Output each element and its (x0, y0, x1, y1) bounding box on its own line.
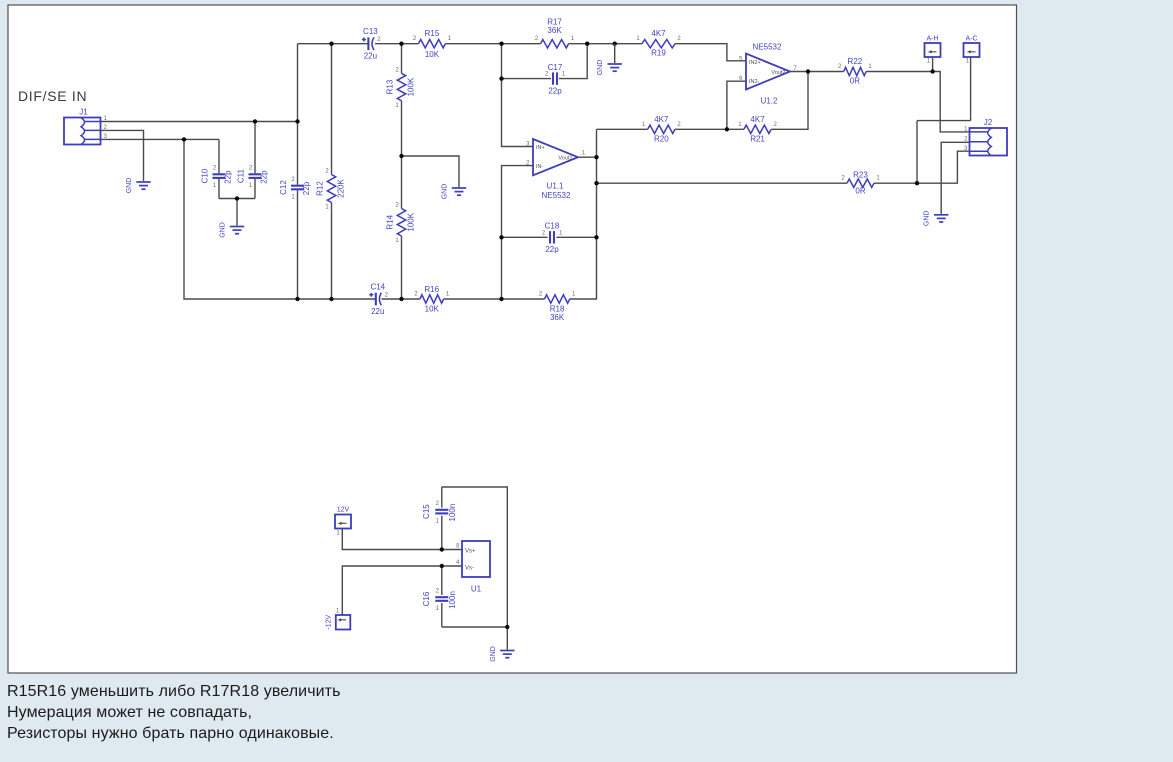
wire R19 to U1.2 IN2+ (675, 44, 746, 61)
svg-text:22p: 22p (548, 87, 562, 96)
label DIF/SE IN (18, 88, 87, 104)
wire C12 top lead (297, 44, 299, 185)
svg-text:0R: 0R (850, 77, 860, 86)
svg-text:100K: 100K (407, 77, 416, 96)
svg-text:22p: 22p (545, 245, 559, 254)
svg-text:IN-: IN- (536, 164, 544, 170)
svg-text:U1.1: U1.1 (547, 182, 564, 191)
node R23 out (915, 181, 919, 185)
wire to R20 (597, 128, 648, 130)
wire R13 top lead (401, 44, 403, 74)
node C16/Vs- (440, 564, 444, 568)
svg-text:GND: GND (490, 646, 497, 662)
wire C16 bottom lead (441, 603, 443, 627)
svg-text:R15: R15 (425, 29, 440, 38)
capacitor C16 100n (422, 589, 457, 613)
svg-text:R16: R16 (424, 285, 439, 294)
svg-text:36K: 36K (547, 26, 562, 35)
node R13/R14 mid (399, 154, 403, 158)
node C17 right (585, 42, 589, 46)
svg-text:4K7: 4K7 (654, 115, 669, 124)
capacitor C13 22u (polarized) (362, 27, 381, 61)
svg-text:R17: R17 (547, 18, 562, 27)
svg-text:22u: 22u (364, 52, 377, 61)
wire C17 right (559, 44, 587, 79)
wire -12V to U1 Vs- (342, 566, 462, 615)
svg-text:-12V: -12V (326, 614, 333, 629)
capacitor C12 22p (279, 177, 311, 201)
capacitor C18 22p (542, 222, 563, 255)
wire A-C to R23 node (916, 121, 918, 184)
svg-text:0R: 0R (855, 187, 865, 196)
node pin1/C12 (295, 119, 299, 123)
svg-text:A-C: A-C (965, 36, 977, 43)
svg-text:C13: C13 (363, 27, 378, 36)
wire C17 left (502, 78, 552, 80)
svg-text:C14: C14 (370, 282, 385, 291)
svg-text:22p: 22p (302, 181, 311, 195)
svg-text:GND: GND (924, 211, 931, 227)
svg-text:22u: 22u (371, 307, 384, 316)
svg-text:Vs-: Vs- (465, 565, 474, 571)
connector J2 (output) (964, 118, 1007, 156)
svg-text:22p: 22p (260, 170, 269, 184)
resistor R21 4K7 (738, 115, 777, 144)
svg-text:U1: U1 (471, 585, 482, 594)
op-amp U1.1 NE5532 (526, 139, 586, 200)
wire J1 pin2 to GND (101, 130, 144, 181)
svg-text:J1: J1 (79, 108, 88, 117)
capacitor C10 22p (201, 166, 233, 190)
wire A-C pin (970, 57, 972, 121)
wire R12 bottom lead (331, 203, 333, 300)
svg-text:NE5532: NE5532 (542, 191, 571, 200)
resistor R16 10K (414, 285, 450, 314)
svg-text:C16: C16 (422, 591, 431, 606)
resistor R19 4K7 (636, 29, 681, 57)
schematic panel (8, 5, 1017, 673)
resistor R23 0R (841, 171, 880, 196)
wire C18 left (502, 236, 548, 238)
node -12V supply pin (326, 609, 351, 630)
svg-text:DIF/SE IN: DIF/SE IN (18, 88, 87, 104)
wire output vertical (596, 129, 598, 299)
svg-text:R23: R23 (853, 171, 868, 180)
node U1.2 out (806, 69, 810, 73)
resistor R17 36K (535, 18, 575, 48)
wire GND tap (402, 156, 460, 187)
svg-text:IN+: IN+ (536, 145, 545, 151)
svg-text:4K7: 4K7 (651, 29, 666, 38)
svg-text:IN2-: IN2- (749, 79, 760, 85)
wire to GND below C10/C11 (236, 199, 238, 226)
resistor R22 0R (838, 57, 872, 86)
resistor R20 4K7 (642, 115, 681, 144)
ground (R13/R14 mid) (442, 184, 467, 200)
node R20/R21 (725, 127, 729, 131)
wire C16 top lead (441, 566, 443, 595)
svg-text:C17: C17 (548, 63, 563, 72)
wire to U1.1 IN+ (502, 79, 534, 147)
wire bottom rail left (184, 139, 375, 299)
svg-text:100K: 100K (407, 212, 416, 231)
wire U1.1 IN- to C18 (502, 166, 534, 299)
node A-H (audio hot pin) (925, 36, 941, 65)
svg-text:22p: 22p (224, 170, 233, 184)
node pin3 branch (182, 137, 186, 141)
wire C15 bottom lead (441, 516, 443, 550)
wire +12V to U1 Vs+ (342, 529, 462, 550)
wire A-C link (917, 120, 971, 122)
wire U1.1 output (578, 156, 597, 158)
svg-text:R22: R22 (848, 57, 863, 66)
ground (top rail) (597, 60, 622, 76)
node A-C (audio cold pin) (964, 36, 980, 65)
node IN- rail (499, 297, 503, 301)
svg-text:12V: 12V (337, 507, 350, 514)
wire C10 top lead (218, 139, 220, 173)
node R23 tap (594, 181, 598, 185)
svg-text:Vs+: Vs+ (465, 549, 476, 555)
svg-text:C18: C18 (545, 222, 560, 231)
node C17 left (499, 76, 503, 80)
node C10/C11 gnd (235, 196, 239, 200)
wire U1.2 IN2- stub (727, 81, 746, 129)
resistor R15 10K (413, 29, 452, 59)
ground (C10/C11) (220, 222, 245, 238)
node +12V supply pin (335, 507, 351, 537)
wire R21 to U1.2 out (771, 72, 808, 130)
svg-text:R21: R21 (750, 135, 765, 144)
wire J2 pin2 to GND (941, 142, 969, 214)
svg-text:4K7: 4K7 (750, 115, 765, 124)
wire J1 pin1 (101, 121, 298, 123)
node U1.1 out (594, 155, 598, 159)
wire C10 bottom lead (218, 179, 220, 199)
wire node A vertical (501, 44, 503, 79)
wire C12 bottom lead (297, 190, 299, 299)
ground (J2 pin2) (924, 211, 949, 227)
wire R14 bottom lead (401, 236, 403, 299)
node C18 right (594, 235, 598, 239)
resistor R14 100K (386, 203, 416, 245)
node IN+ net (499, 42, 503, 46)
svg-text:GND: GND (442, 184, 449, 200)
wire C11 bottom lead (254, 179, 256, 199)
capacitor C11 22p (237, 166, 269, 190)
svg-text:NE5532: NE5532 (753, 43, 782, 52)
svg-text:A-H: A-H (926, 36, 938, 43)
wire R16 to R18 (444, 298, 545, 300)
node GND tap top (613, 42, 617, 46)
svg-text:GND: GND (126, 178, 133, 194)
wire J1 pin3 (101, 138, 220, 140)
connector J1 (DIF/SE input) (64, 108, 108, 145)
wire C13 to R13 node (375, 43, 419, 45)
wire R23 to J2 pin3 (874, 151, 970, 183)
capacitor C15 100n (422, 501, 457, 524)
wire C11 top lead (254, 122, 256, 174)
svg-text:C10: C10 (201, 168, 210, 183)
wire R22 to A-H (866, 72, 969, 132)
wire to power GND (506, 627, 508, 650)
svg-text:C12: C12 (279, 180, 288, 195)
node C18 left (499, 235, 503, 239)
capacitor C14 22u (polarized) (369, 282, 388, 316)
svg-text:IN2+: IN2+ (749, 60, 761, 66)
wire power loop (442, 487, 508, 627)
wire R13 to GND tap (401, 101, 403, 156)
wire R14 top lead (401, 156, 403, 209)
wire C15 top lead (441, 487, 443, 508)
node power gnd (505, 625, 509, 629)
node C15/Vs+ (440, 547, 444, 551)
svg-text:10K: 10K (425, 50, 440, 59)
resistor R18 36K (539, 292, 576, 323)
wire to R23 (597, 182, 848, 184)
svg-text:100n: 100n (448, 504, 457, 522)
wire R12 top lead (331, 44, 333, 175)
ground (power) (490, 646, 515, 662)
svg-text:Vout2: Vout2 (771, 70, 785, 76)
node A-H tap (930, 69, 934, 73)
wire top-rail GND stub (614, 44, 616, 63)
ground (J1 pin2) (126, 178, 151, 194)
wire C14 to R16 (382, 298, 420, 300)
svg-text:C11: C11 (237, 169, 246, 184)
wire top rail left (298, 43, 369, 45)
svg-text:R14: R14 (386, 214, 395, 229)
wire R15 to R17 (445, 43, 540, 45)
wire U1.2 output (790, 71, 844, 73)
svg-text:GND: GND (220, 222, 227, 238)
svg-text:R20: R20 (654, 135, 669, 144)
svg-text:100n: 100n (448, 591, 457, 609)
svg-text:10K: 10K (425, 305, 440, 314)
svg-text:C15: C15 (422, 504, 431, 519)
node C12 bottom (295, 297, 299, 301)
svg-text:Vout1: Vout1 (558, 156, 572, 162)
svg-text:36K: 36K (550, 313, 565, 322)
svg-text:R18: R18 (550, 305, 565, 314)
svg-text:U1.2: U1.2 (761, 97, 778, 106)
wire R18 to output (570, 298, 597, 300)
wire R17 to R19 (569, 43, 642, 45)
op-amp U1.2 NE5532 (739, 43, 797, 106)
svg-text:R13: R13 (386, 79, 395, 94)
wire C18 right (557, 236, 597, 238)
svg-text:R12: R12 (316, 181, 325, 196)
resistor R13 100K (386, 67, 416, 109)
wire A-H pin (932, 57, 934, 72)
IC U1 power pins (456, 541, 490, 594)
node R12 top (329, 42, 333, 46)
svg-text:R19: R19 (651, 49, 666, 58)
wire C10-C11 bottom (219, 198, 255, 200)
node R13 top (399, 42, 403, 46)
node R12 bottom (329, 297, 333, 301)
wire R20 to R21 (675, 128, 744, 130)
node R14 bottom (399, 297, 403, 301)
svg-text:GND: GND (597, 60, 604, 76)
resistor R12 220K (316, 169, 346, 211)
capacitor C17 22p (545, 63, 566, 96)
svg-text:220K: 220K (337, 178, 346, 197)
node C11 top (253, 119, 257, 123)
svg-text:J2: J2 (984, 118, 993, 127)
